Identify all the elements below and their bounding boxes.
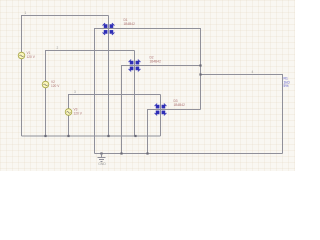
svg-text:5%: 5% xyxy=(284,84,289,88)
svg-text:1B4B42: 1B4B42 xyxy=(174,103,186,107)
svg-text:120 V: 120 V xyxy=(51,84,60,88)
svg-text:3: 3 xyxy=(74,90,76,94)
svg-text:1B4B42: 1B4B42 xyxy=(150,60,162,64)
svg-text:1B4B42: 1B4B42 xyxy=(124,22,136,26)
svg-text:2: 2 xyxy=(57,46,59,50)
svg-text:4: 4 xyxy=(252,70,254,74)
svg-text:120 V: 120 V xyxy=(27,55,36,59)
svg-text:1: 1 xyxy=(25,11,27,15)
svg-text:GND: GND xyxy=(98,162,106,166)
svg-text:120 V: 120 V xyxy=(74,112,83,116)
